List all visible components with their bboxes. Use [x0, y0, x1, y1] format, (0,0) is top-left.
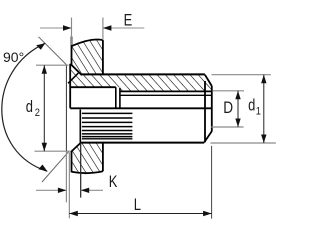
- dim K arrow right: [81, 188, 90, 193]
- dim E line right tail: [103, 27, 144, 29]
- dim D extension top: [212, 90, 244, 92]
- plate bottom break arc: [72, 171, 103, 173]
- dim L line: [69, 213, 211, 215]
- dim E arrow right: [103, 25, 112, 30]
- svg-text:E: E: [124, 12, 133, 30]
- svg-text:L: L: [134, 197, 141, 215]
- plate lower block hatch: [72, 143, 103, 173]
- dim d2 extension bottom: [35, 150, 70, 152]
- nut wall section hatch upper: [70, 75, 120, 87]
- dim D line: [237, 91, 239, 127]
- plate left surface lower: [71, 151, 73, 172]
- svg-text:K: K: [109, 174, 118, 192]
- nut head section hatch: [71, 64, 82, 87]
- plate top break arc: [72, 40, 103, 47]
- dim d1 extension bottom: [210, 142, 276, 144]
- svg-text:90°: 90°: [3, 49, 24, 65]
- bore line: [70, 86, 116, 88]
- dim L extension right: [211, 146, 213, 219]
- body top edge: [82, 73, 205, 75]
- dim L arrow right: [203, 211, 212, 216]
- svg-text:1: 1: [256, 106, 261, 118]
- dim D arrow bottom: [235, 119, 240, 128]
- svg-text:d: d: [248, 97, 255, 115]
- svg-text:D: D: [223, 99, 233, 117]
- plate back surface upper: [102, 40, 104, 74]
- section boundary centerline: [70, 107, 212, 109]
- dim E extension left: [71, 18, 73, 46]
- plate upper block hatch: [70, 40, 103, 75]
- dim K line right tail: [81, 189, 103, 191]
- end chamfer bottom: [204, 131, 212, 142]
- knurl lines: [82, 113, 132, 138]
- dim L extension left: [68, 152, 70, 218]
- dim E arrow left: [63, 25, 72, 30]
- dim 90 upper extension: [39, 37, 67, 65]
- dim D arrow top: [235, 91, 240, 100]
- dim K arrow left: [58, 188, 67, 193]
- thread major line: [120, 94, 212, 96]
- thread minor line: [120, 90, 212, 92]
- end face: [211, 86, 213, 131]
- knurl left edge: [79, 110, 81, 143]
- dim K line left tail: [36, 189, 66, 191]
- countersink cone upper: [70, 64, 82, 75]
- dim D extension bottom: [211, 126, 244, 128]
- plate back surface lower: [102, 143, 104, 172]
- countersink cone lower: [71, 143, 81, 152]
- dim 90 arc: [2, 43, 47, 171]
- dim d1 extension top: [212, 74, 271, 76]
- svg-text:d: d: [26, 99, 33, 117]
- dim E extension right: [102, 18, 104, 41]
- dim E line left tail: [40, 27, 72, 29]
- bore step edge 1: [115, 87, 117, 108]
- body bottom edge: [81, 142, 204, 144]
- head bore chamfer line: [68, 73, 78, 83]
- dim d2 line: [43, 65, 45, 151]
- head front face d2 edge (thin): [65, 65, 67, 151]
- plate left surface upper: [71, 37, 73, 65]
- svg-text:2: 2: [35, 107, 40, 119]
- head front section edge (thick): [69, 64, 71, 109]
- dim K extension left: [65, 151, 67, 202]
- end chamfer top: [205, 75, 212, 86]
- dim 90 arc arrow bottom: [38, 165, 47, 172]
- bore step edge 2: [119, 88, 121, 109]
- dim L arrow left: [69, 211, 78, 216]
- dim 90 arc arrow top: [36, 43, 45, 50]
- dim 90 lower extension: [42, 151, 70, 182]
- dim d1 arrow top: [261, 75, 266, 84]
- dim d1 line: [263, 75, 265, 143]
- dim K extension right: [80, 143, 82, 198]
- dim d2 extension top: [36, 64, 69, 66]
- chamfer start edge: [204, 81, 206, 142]
- dim d2 arrow top: [42, 65, 47, 74]
- dim d1 arrow bottom: [261, 135, 266, 144]
- dim d2 arrow bottom: [42, 143, 47, 152]
